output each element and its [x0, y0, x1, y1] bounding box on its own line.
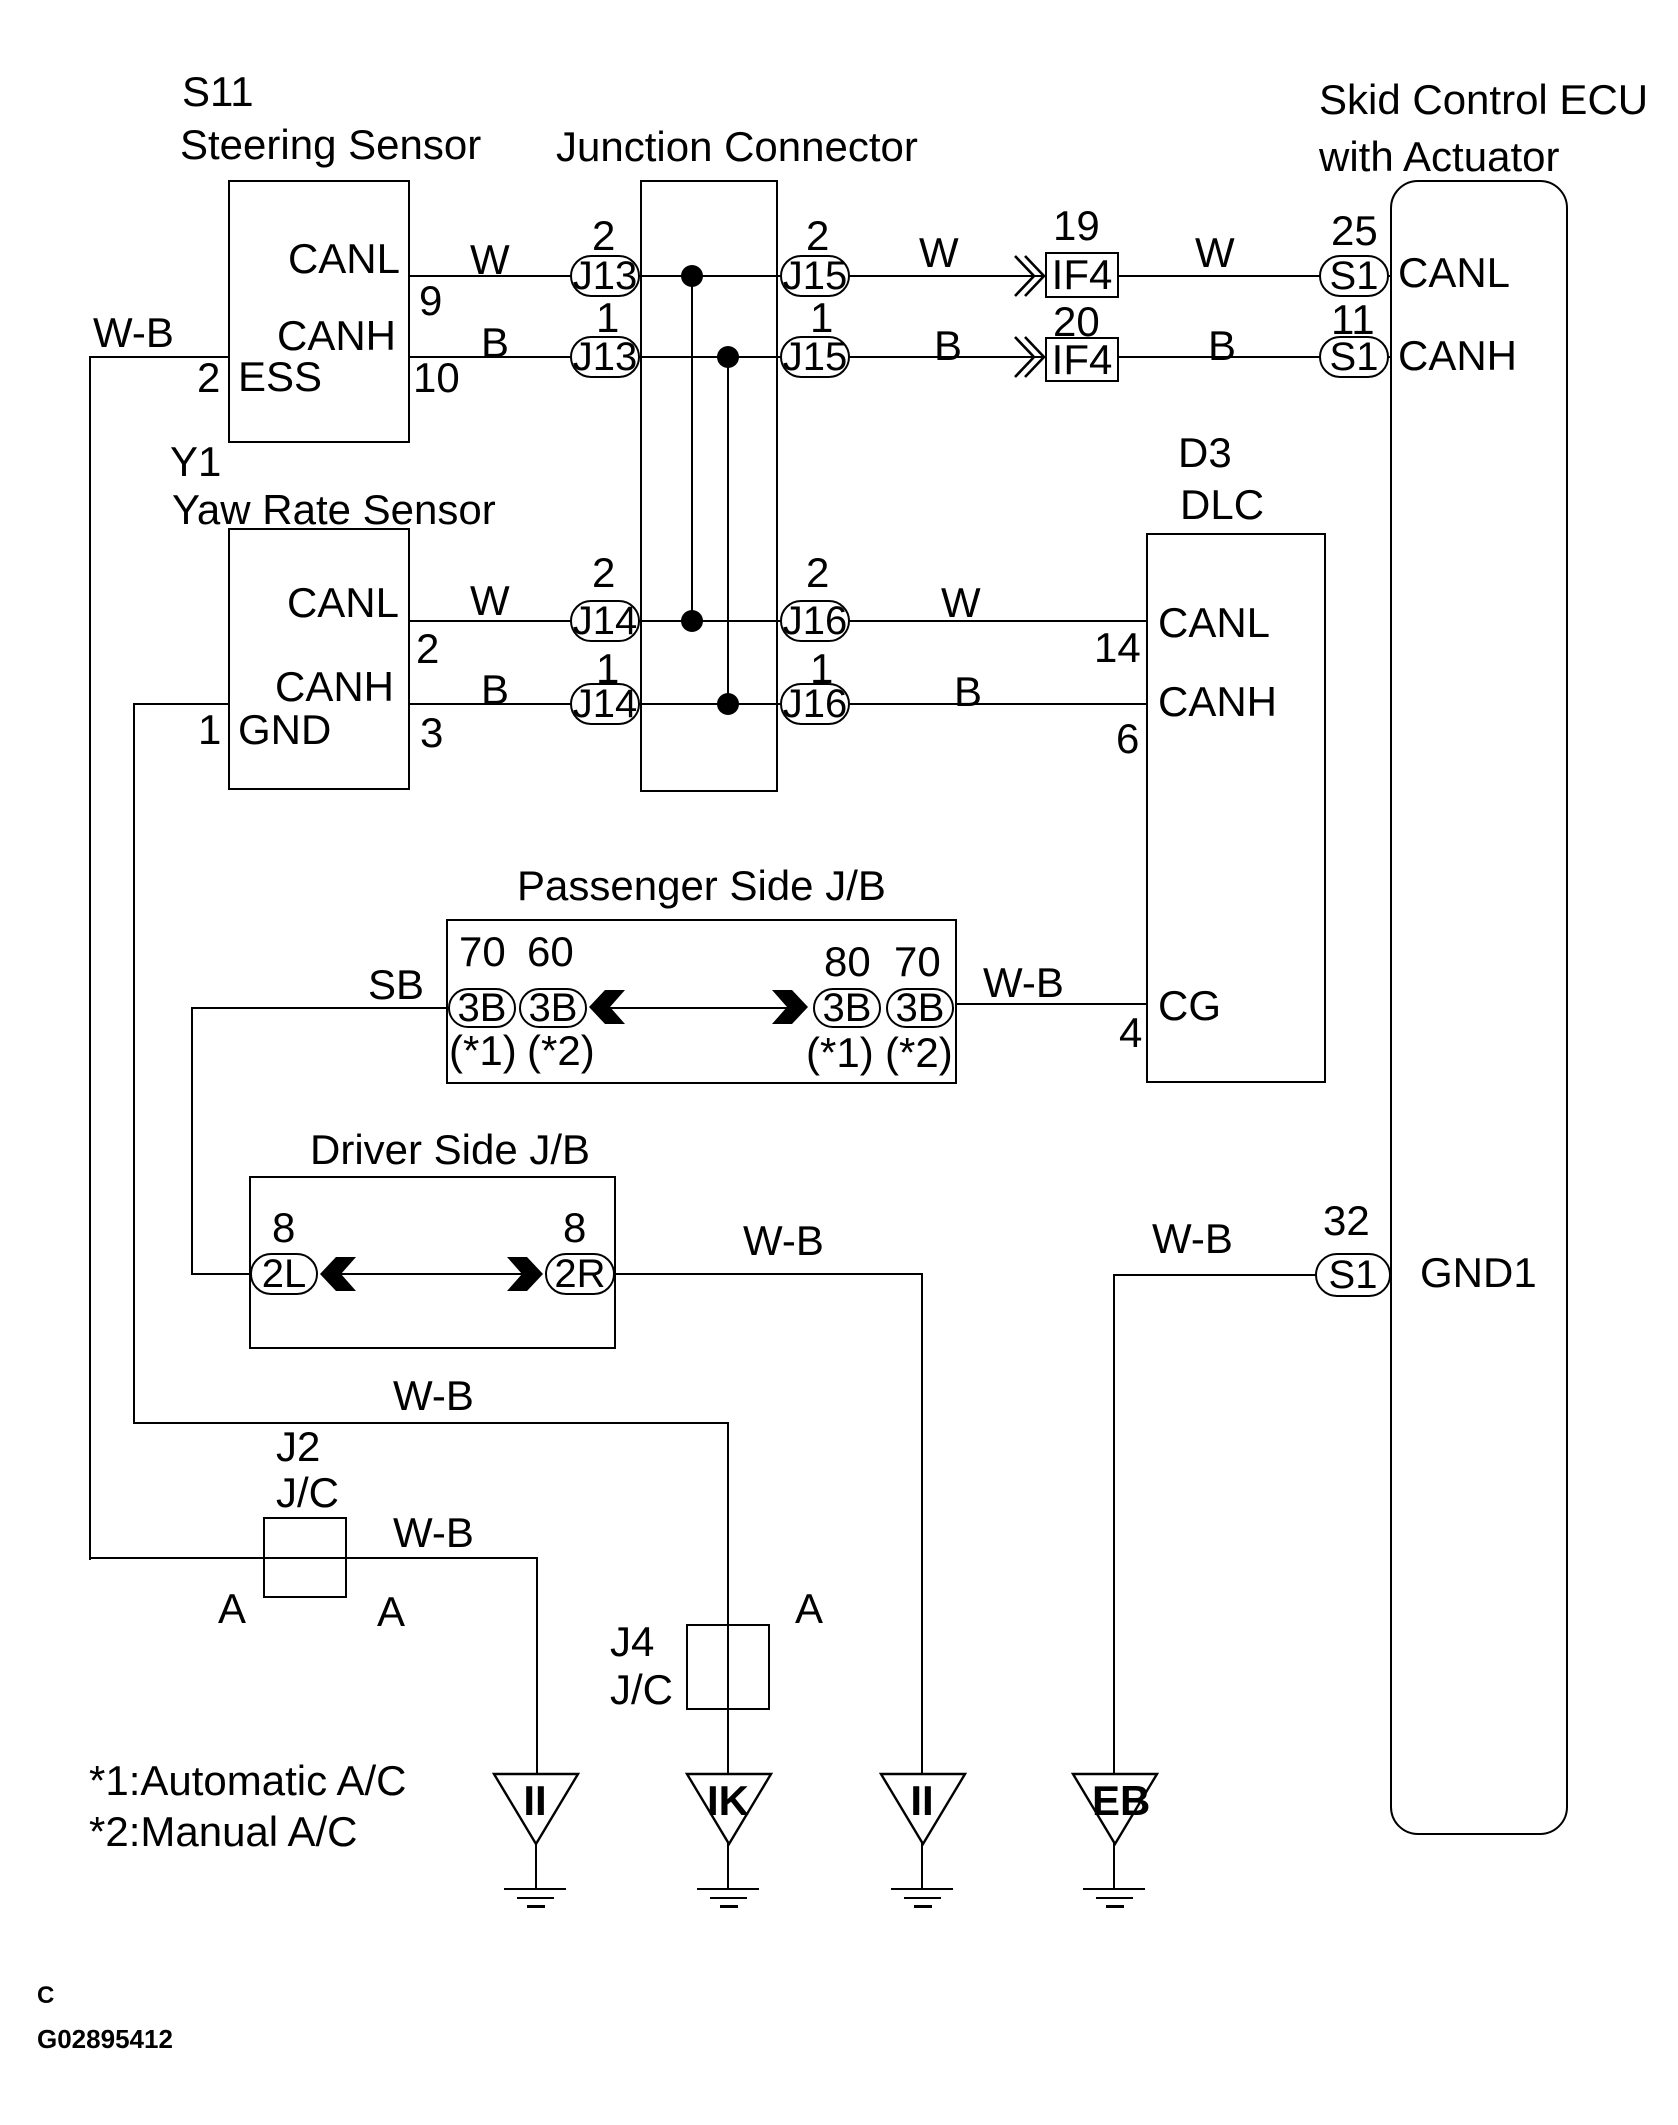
wire label B steering-J13	[481, 322, 509, 364]
pin 1 above J15	[810, 297, 833, 339]
wire W-B from yaw GND pin 1 to vertical	[133, 703, 228, 705]
label Steering Sensor	[180, 124, 481, 166]
label GND yaw	[238, 709, 331, 751]
connector oval 3B pin 70	[448, 988, 516, 1028]
wire label SB	[368, 964, 424, 1006]
pin 4 DLC CG	[1119, 1012, 1142, 1054]
label CANL in ECU	[1398, 252, 1510, 294]
wire SB from vertical to passenger J/B 3B	[191, 1007, 453, 1009]
pin 1 yaw GND	[198, 709, 221, 751]
pin 8 above 2L	[272, 1207, 295, 1249]
label CANH in DLC	[1158, 681, 1277, 723]
pin A left of J2	[218, 1588, 246, 1630]
arrowhead left passenger J/B	[589, 989, 625, 1025]
junction J4 J/C box	[686, 1624, 770, 1710]
wire label W-B passenger-DLC	[983, 962, 1064, 1004]
wire junction connector internal vertical CANH	[727, 356, 729, 705]
pin A right of J4	[795, 1588, 823, 1630]
label CANL in DLC	[1158, 602, 1270, 644]
connector oval 2R pin 8	[545, 1253, 615, 1295]
connector oval J15 pin 1	[780, 336, 850, 378]
wire CANL row: steering sensor to skid control ECU (W)	[410, 275, 1390, 277]
wire label B J16-DLC	[954, 671, 982, 713]
wire label B IF4-S1	[1208, 325, 1236, 367]
label with Actuator	[1319, 136, 1559, 178]
wire W-B vertical from 2R down to II ground triangle	[921, 1273, 923, 1774]
wire label W-B J2 row	[393, 1512, 474, 1554]
wire into driver J/B 2L	[191, 1273, 256, 1275]
ground symbol II right bars	[891, 1888, 953, 1890]
label DLC	[1180, 484, 1264, 526]
pin 1 above J13	[596, 297, 619, 339]
label Skid Control ECU	[1319, 79, 1648, 121]
passenger side J/B box	[446, 919, 957, 1084]
label CANH yaw	[275, 666, 394, 708]
label J4	[610, 1621, 654, 1663]
junction J2 J/C box	[263, 1517, 347, 1598]
connector oval J14 pin 2	[570, 600, 640, 642]
pin 60 passenger left	[527, 931, 574, 973]
wire label W steering-J13	[470, 239, 510, 281]
label CG in DLC	[1158, 985, 1221, 1027]
pin 1 above J16	[810, 648, 833, 690]
note (*1) passenger right	[806, 1032, 874, 1074]
wire W-B vertical down to EB ground triangle	[1113, 1274, 1115, 1774]
label CANL yaw	[287, 582, 399, 624]
label C	[37, 1984, 54, 2008]
note *2 Manual A/C	[89, 1811, 358, 1853]
ground symbol IK bars	[697, 1888, 759, 1890]
wire yaw CANH row to DLC (B)	[410, 703, 1146, 705]
pin 2 above J15	[806, 215, 829, 257]
pin 70 passenger left	[459, 931, 506, 973]
connector oval 3B pin 60	[519, 988, 587, 1028]
ground symbol II left bars	[504, 1888, 566, 1890]
wire label W-B lower run	[393, 1375, 474, 1417]
label J2	[276, 1426, 320, 1468]
pin 8 above 2R	[563, 1207, 586, 1249]
label CANL steering	[288, 238, 400, 280]
label Y1	[170, 441, 221, 483]
wire junction connector internal vertical CANL	[691, 275, 693, 622]
ground triangle II label	[513, 1780, 557, 1822]
ground triangle II right	[879, 1772, 967, 1846]
connector oval 2L pin 8	[250, 1253, 318, 1295]
wire W-B from passenger J/B to DLC CG	[957, 1003, 1146, 1005]
connector oval S1 pin 11 CANH	[1319, 336, 1389, 378]
connector oval J13 pin 2	[570, 255, 640, 297]
pin 2 above J13	[592, 215, 615, 257]
connector oval 3B pin 80	[813, 988, 881, 1028]
wire label B yaw-J14	[481, 669, 509, 711]
pin 2 yaw CANL	[416, 628, 439, 670]
wire W-B from driver J/B 2R to vertical	[614, 1273, 923, 1275]
connector oval 3B pin 70 right	[886, 988, 954, 1028]
pin A right of J2	[377, 1591, 405, 1633]
wire W-B horizontal run from yaw ground vertical to IK branch	[133, 1422, 729, 1424]
note (*2) passenger left	[527, 1030, 595, 1072]
pin 2 steering ESS	[197, 357, 220, 399]
connector oval J16 pin 1	[780, 683, 850, 725]
ground triangle EB	[1071, 1772, 1159, 1846]
connector oval J15 pin 2	[780, 255, 850, 297]
label G02895412	[37, 2026, 173, 2052]
label D3	[1178, 432, 1232, 474]
label J/C of J2	[276, 1472, 339, 1514]
pin 20 above IF4	[1053, 301, 1100, 343]
steering sensor S11 box	[228, 180, 410, 443]
arrowhead left driver J/B	[320, 1256, 356, 1292]
junction dot J14/J16 CANL	[681, 610, 703, 632]
junction connector box	[640, 180, 778, 792]
connector oval S1 pin 25 CANL	[1319, 255, 1389, 297]
wire CANH row: steering sensor to skid control ECU (B)	[410, 356, 1390, 358]
wire yaw CANL row to DLC (W)	[410, 620, 1146, 622]
connector IF4 box pin 19	[1045, 252, 1119, 298]
connector oval J13 pin 1	[570, 336, 640, 378]
wire driver J/B internal arrow line	[340, 1273, 530, 1275]
ground triangle IK	[685, 1772, 773, 1846]
pin 14 DLC CANL	[1094, 627, 1141, 669]
pin 10 steering CANH	[413, 357, 460, 399]
wire W-B vertical down to II ground triangle	[536, 1557, 538, 1774]
pin 2 above J16	[806, 552, 829, 594]
arrowhead right passenger J/B	[772, 989, 808, 1025]
wire left W-B vertical from ESS down to J2 J/C row	[89, 356, 91, 1560]
wire label W IF4-S1	[1195, 232, 1235, 274]
wire label W J16-DLC	[941, 582, 981, 624]
label Yaw Rate Sensor	[172, 489, 496, 531]
connector oval S1 pin 32 GND1	[1315, 1253, 1391, 1297]
note *1 Automatic A/C	[89, 1760, 406, 1802]
junction dot J14/J16 CANH	[717, 693, 739, 715]
yaw rate sensor Y1 box	[228, 528, 410, 790]
label Passenger Side J/B	[517, 865, 886, 907]
label S11	[182, 71, 254, 113]
junction dot J13/J15 CANH	[717, 346, 739, 368]
ground triangle II left	[492, 1772, 580, 1846]
pin 6 DLC CANH	[1116, 718, 1139, 760]
wire SB vertical down to driver J/B	[191, 1007, 193, 1275]
note (*1) passenger left	[449, 1030, 517, 1072]
connector oval J14 pin 1	[570, 683, 640, 725]
ground symbol II right stem	[921, 1842, 923, 1889]
pin 25 above S1	[1331, 210, 1378, 252]
connector oval J16 pin 2	[780, 600, 850, 642]
ground symbol EB stem	[1113, 1842, 1115, 1889]
ground symbol EB bars	[1083, 1888, 1145, 1890]
wire W-B vertical through J4 J/C to IK ground triangle	[727, 1422, 729, 1774]
label J/C of J4	[610, 1669, 673, 1711]
wire label W J15-IF4	[919, 232, 959, 274]
note (*2) passenger right	[885, 1032, 953, 1074]
wire W-B from steering ESS pin 2 to left vertical	[89, 356, 228, 358]
label GND1 in ECU	[1420, 1252, 1537, 1294]
pin 9 steering CANL	[419, 280, 442, 322]
label Junction Connector	[556, 126, 918, 168]
label W-B steering ESS wire	[93, 312, 174, 354]
ground symbol IK stem	[727, 1842, 729, 1889]
label CANH steering	[277, 315, 396, 357]
pin 19 above IF4	[1053, 205, 1100, 247]
ground symbol II left stem	[535, 1842, 537, 1889]
pin 32 above S1	[1323, 1200, 1370, 1242]
chevron arrow into IF4 pin 19	[1004, 254, 1046, 298]
pin 3 yaw CANH	[420, 712, 443, 754]
wire label W yaw-J14	[470, 580, 510, 622]
label CANH in ECU	[1398, 335, 1517, 377]
pin 70 passenger right	[894, 941, 941, 983]
wire label B J15-IF4	[934, 325, 962, 367]
pin 2 above J14	[592, 552, 615, 594]
skid control ECU box	[1390, 180, 1568, 1835]
wire W-B from vertical to skid ECU S1 pin 32	[1113, 1274, 1318, 1276]
pin 1 above J14	[596, 648, 619, 690]
wire label W-B 2R	[743, 1220, 824, 1262]
label Driver Side J/B	[310, 1129, 590, 1171]
ground triangle IK label	[706, 1780, 750, 1822]
wire W-B horizontal through J2 J/C to II branch	[89, 1557, 538, 1559]
wire label W-B to S1 32	[1152, 1218, 1233, 1260]
label ESS	[238, 356, 322, 398]
pin 80 passenger right	[824, 941, 871, 983]
arrowhead right driver J/B	[507, 1256, 543, 1292]
wire vertical from yaw GND down to lower W-B run	[133, 703, 135, 1424]
DLC D3 box	[1146, 533, 1326, 1083]
junction dot J13/J15 CANL	[681, 265, 703, 287]
chevron arrow into IF4 pin 20	[1004, 335, 1046, 379]
wire passenger J/B internal arrow line	[604, 1007, 796, 1009]
driver side J/B box	[249, 1176, 616, 1349]
ground triangle EB label	[1092, 1780, 1136, 1822]
ground triangle II right label	[900, 1780, 944, 1822]
connector IF4 box pin 20	[1045, 337, 1119, 382]
pin 11 above S1	[1331, 299, 1375, 341]
